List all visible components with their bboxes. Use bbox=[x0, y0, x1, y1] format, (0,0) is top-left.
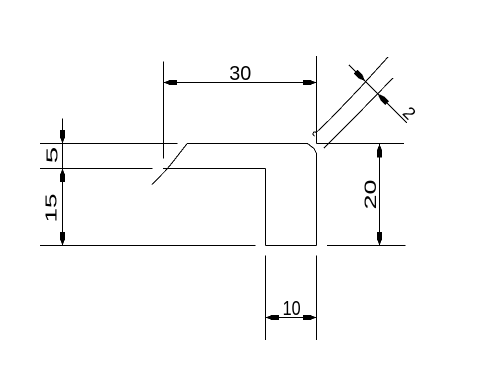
svg-text:30: 30 bbox=[229, 63, 251, 85]
svg-text:15: 15 bbox=[43, 193, 60, 222]
svg-text:5: 5 bbox=[45, 146, 62, 163]
svg-text:20: 20 bbox=[361, 180, 380, 210]
svg-text:10: 10 bbox=[283, 297, 301, 320]
